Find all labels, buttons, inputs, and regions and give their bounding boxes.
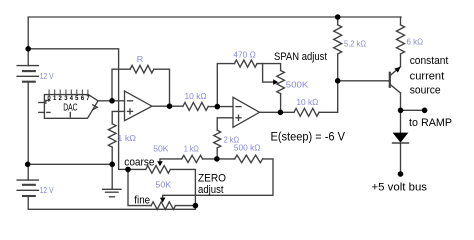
svg-text:5: 5 [75,96,79,102]
resistor 470 ohm [235,60,258,67]
node ground rail [109,162,115,168]
svg-text:coarse: coarse [124,156,154,168]
op-amp U2 [233,97,260,127]
resistor 10k input U2 [183,102,208,110]
svg-text:ZERO: ZERO [198,172,226,184]
resistor 10k to base [294,108,319,116]
resistor 1k zero row [182,155,203,162]
svg-text:SPAN adjust: SPAN adjust [274,51,327,63]
wire 6k bottom to collector [400,54,402,67]
wire fine pot right [175,205,195,207]
resistor 6k vertical [397,25,405,54]
wire U2 noninverting input to 2k [217,118,233,130]
wire 10k#2 to transistor base riser [319,81,338,113]
node top rail 5.2k [335,14,341,20]
svg-text:50K: 50K [155,181,172,190]
node U1 output [167,103,173,109]
svg-text:500K: 500K [286,81,309,90]
svg-text:500 kΩ: 500 kΩ [234,143,261,152]
wire U1 output [152,105,183,107]
wire 2k bottom to ZERO node [216,148,218,159]
wire U1 noninverting input down to 1k [112,111,124,123]
svg-text:4: 4 [70,96,74,102]
node coarse left [125,167,131,173]
resistor 1k vertical [108,124,116,147]
wire span pot wiper tap [263,64,274,83]
DAC U3 [39,90,98,118]
node battery V1 tap [25,46,31,52]
wire 6k top [400,17,402,25]
node fine right [193,203,199,209]
svg-text:6 kΩ: 6 kΩ [407,38,424,47]
span pot wiper arrow [273,79,278,85]
svg-text:to RAMP: to RAMP [409,117,452,129]
wire base lead [338,80,390,82]
node U2 output [278,110,284,116]
potentiometer fine 50K [151,202,175,210]
svg-text:6: 6 [81,96,85,102]
wire to RAMP branch [401,109,425,111]
wire diode cathode to +5V bus [400,143,402,174]
svg-text:1: 1 [53,96,57,102]
svg-text:470 Ω: 470 Ω [233,51,255,60]
wire split supply rail [28,163,113,165]
node +5V bus [398,171,404,177]
op-amp U1 [125,91,153,121]
svg-text:source: source [410,84,441,96]
battery V2 12V [17,180,38,196]
svg-text:adjust: adjust [198,184,224,196]
svg-text:constant: constant [410,55,449,67]
coarse pot wiper arrow [157,161,163,166]
wire DAC output to node A [98,100,112,102]
wire 500k right loop down to fine wiper [163,159,273,201]
svg-text:12 V: 12 V [40,186,55,195]
resistor R feedback [130,65,154,73]
node base junction [335,78,341,84]
node A DAC out / U1 inv [109,98,115,104]
wire top +12V rail [28,17,401,66]
wire fine pot left leg [128,169,151,205]
battery V1 12V [17,66,38,82]
svg-text:7: 7 [86,96,90,102]
svg-text:R: R [137,55,144,64]
wire split rail to battery V2 plus [27,164,29,180]
wire 470 feedback loop [217,64,234,107]
wire 10k to U2 inverting input [208,106,233,108]
node split supply [25,162,31,168]
svg-text:E(steep) = -6 V: E(steep) = -6 V [271,132,346,144]
svg-text:fine: fine [134,194,150,206]
svg-text:10 kΩ: 10 kΩ [185,92,207,101]
svg-text:2: 2 [59,96,63,102]
wire 1k to 500k node [203,158,235,160]
svg-text:1 kΩ: 1 kΩ [184,144,199,153]
wire feedback R loop [112,69,130,101]
resistor 2k vertical [214,130,221,148]
ground [103,189,122,197]
resistor 500k zero row [235,155,263,163]
node emitter / RAMP [398,108,404,114]
wire U2 output [260,111,295,113]
potentiometer span 500K vertical [277,71,285,94]
resistor 5.2k vertical [334,25,342,54]
fine pot wiper arrow [160,198,166,203]
wire node A to op-amp U1 inverting input [112,100,125,102]
wire emitter down to diode [400,93,402,133]
wire 1k bottom to rail [111,147,113,164]
svg-text:50K: 50K [153,144,169,153]
wire battery V2 minus to bottom rail [28,196,195,209]
node ZERO sum [214,156,220,162]
svg-text:0: 0 [47,96,51,102]
wire mid rail from battery junction to op-amp area [28,49,128,170]
svg-text:3: 3 [64,96,68,102]
wire ground stem [111,164,113,189]
diode D1 [393,133,409,143]
svg-text:10 kΩ: 10 kΩ [296,98,318,107]
wire span pot bottom to U2 output node [280,94,282,113]
svg-text:DAC: DAC [63,103,77,114]
node RAMP terminal [422,108,428,114]
svg-text:1 kΩ: 1 kΩ [117,134,136,143]
svg-text:12 V: 12 V [40,72,55,81]
node U2 inv input [215,104,221,110]
svg-text:+5 volt bus: +5 volt bus [372,182,428,194]
wire 5.2k top [337,17,339,25]
wire coarse wiper to 1k row [160,159,182,163]
wire 5.2k bottom [337,54,339,81]
potentiometer coarse 50K [146,166,171,174]
wire coarse pot row [128,168,146,170]
wire battery V1 minus down to split rail [27,82,29,165]
transistor Q1 [390,67,401,94]
svg-text:5.2 kΩ: 5.2 kΩ [344,39,366,48]
svg-text:current: current [410,70,445,82]
